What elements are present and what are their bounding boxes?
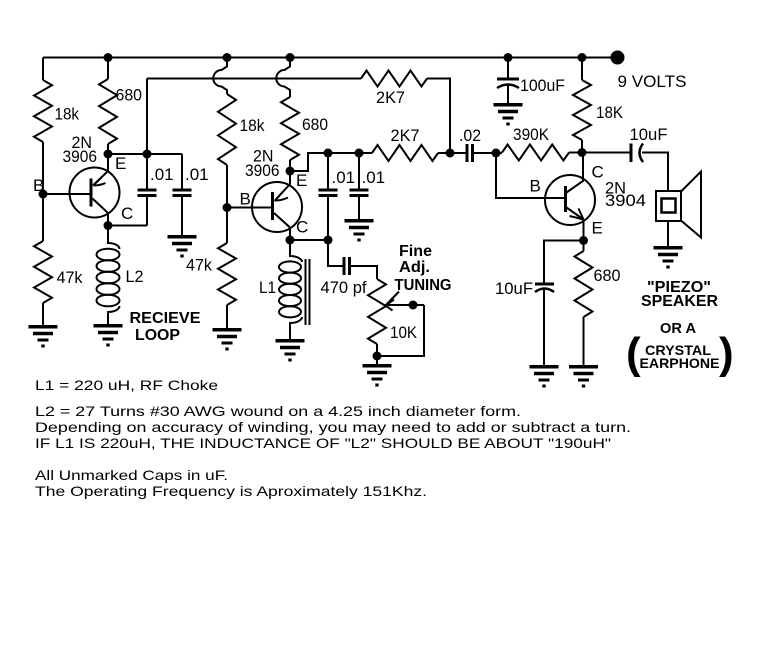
capacitor C 10uF coupling plus plate: [630, 144, 633, 163]
svg-text:E: E: [592, 219, 603, 238]
svg-text:680: 680: [116, 86, 143, 105]
svg-text:18k: 18k: [240, 116, 265, 135]
wire E3 to bypass cap: [544, 241, 584, 284]
capacitor C .01 stage2 first plates: [319, 190, 338, 196]
node E3 junction: [579, 236, 588, 245]
capacitor C .02 plates: [467, 144, 473, 162]
svg-text:Fine: Fine: [399, 243, 432, 260]
ground under L1: [276, 341, 305, 360]
speaker horn: [681, 172, 701, 238]
node cap .01 stage2 first top: [324, 149, 333, 158]
speaker piezo inner: [662, 199, 676, 213]
ground under 47k stage2: [213, 330, 242, 349]
capacitor C 10uF coupling wire left: [582, 152, 630, 154]
wire B3 path: [496, 153, 565, 198]
svg-text:9 VOLTS: 9 VOLTS: [618, 72, 687, 91]
svg-text:.01: .01: [185, 165, 209, 184]
resistor R 680 stage2: [281, 97, 299, 160]
node E1 junction: [104, 150, 113, 159]
ground under 680 stage3: [569, 367, 598, 386]
node 18k stage2 top rail dot: [223, 53, 232, 62]
inductor L1 core lines: [306, 259, 310, 325]
resistor R 18k stage2: [218, 94, 236, 165]
wire cap .01 c top lead: [327, 153, 329, 190]
svg-text:RECIEVE: RECIEVE: [130, 310, 201, 327]
wire speaker to ground: [667, 221, 669, 246]
resistor R 47k stage2 lead: [226, 208, 228, 244]
svg-text:L1: L1: [259, 278, 276, 297]
transistor Q1 emitter arrow: [94, 178, 106, 186]
wire bypass cap to ground: [543, 290, 545, 366]
node 18K stage3 top rail dot: [578, 53, 587, 62]
wire 390K left lead: [496, 152, 502, 154]
ground under pot: [363, 366, 392, 385]
wire 18k bottom to base node: [42, 142, 44, 194]
wire 100uF to ground: [507, 85, 509, 103]
svg-text:47k: 47k: [186, 256, 212, 275]
node .02/390K junction: [492, 149, 501, 158]
svg-text:680: 680: [302, 115, 328, 134]
resistor R 2K7 second: [372, 145, 438, 161]
transistor Q1 circle: [70, 168, 120, 218]
svg-text:The Operating Frequency is Apr: The Operating Frequency is Aproximately …: [35, 483, 427, 499]
transistor Q1 collector diagonal: [93, 199, 109, 226]
resistor R 47k stage2: [218, 243, 236, 305]
wire Q1 base from B1: [43, 193, 90, 195]
svg-text:.01: .01: [362, 168, 386, 187]
wire cap 470pf to pot: [350, 266, 378, 279]
wire 100uF top lead: [507, 58, 509, 80]
svg-text:L2 = 27 Turns #30 AWG wound o: L2 = 27 Turns #30 AWG wound on a 4.25 in…: [35, 403, 521, 419]
wire pot bottom to ground: [376, 344, 378, 364]
svg-text:18K: 18K: [596, 103, 624, 122]
svg-text:(: (: [626, 329, 641, 378]
node 680 stage1 top rail dot: [104, 53, 113, 62]
wire wiper down to bottom: [377, 305, 424, 356]
inductor L1: [279, 240, 302, 339]
resistor R 680 stage1: [99, 79, 117, 144]
resistor R 47k stage1 lead: [42, 194, 44, 241]
wire 18k stage2 top with hop: [213, 58, 227, 95]
potentiometer wiper arrow: [386, 292, 400, 311]
svg-text:LOOP: LOOP: [135, 327, 180, 344]
capacitor C .01 stage1 second plates: [173, 190, 192, 196]
svg-text:10K: 10K: [390, 323, 418, 342]
wire 47k stage2 to ground: [226, 305, 228, 328]
transistor Q2 circle: [252, 182, 302, 232]
transistor Q3 collector diagonal: [567, 153, 584, 193]
svg-text:3906: 3906: [245, 161, 280, 180]
resistor R 680 stage3: [575, 251, 593, 317]
svg-text:3906: 3906: [63, 147, 98, 166]
ground under L2: [94, 326, 123, 345]
svg-text:L1 = 220 uH, RF Choke: L1 = 220 uH, RF Choke: [35, 377, 218, 393]
wire cap .01 a bottom to C1 line: [146, 196, 148, 226]
wire 390K right lead: [569, 152, 582, 154]
svg-text:C: C: [121, 204, 133, 223]
node 9V terminal dot: [611, 51, 625, 65]
node C2 branch junction: [324, 236, 333, 245]
wire cap .01 b to ground: [181, 196, 183, 236]
svg-text:Depending on accuracy of windi: Depending on accuracy of winding, you ma…: [35, 419, 631, 435]
svg-text:IF L1 IS 220uH, THE INDUCTANCE: IF L1 IS 220uH, THE INDUCTANCE OF "L2" S…: [35, 435, 611, 451]
wire 47k to ground: [42, 303, 44, 325]
wire 2K7 first to drop: [427, 79, 450, 154]
wire 680 stage3 to ground: [583, 317, 585, 365]
transistor Q1 emitter diagonal: [93, 154, 108, 186]
wire 680 bottom to E1: [107, 144, 109, 154]
wire 680 stage2 bottom to E2: [289, 160, 291, 171]
ground under speaker: [654, 248, 683, 267]
resistor R 18K stage3 lead top: [581, 58, 583, 81]
svg-text:390K: 390K: [513, 125, 550, 144]
wire cap .02 right: [473, 152, 497, 154]
speaker piezo body: [656, 191, 681, 221]
resistor R 680 stage3 lead: [583, 241, 585, 252]
wire coupling cap to speaker: [642, 153, 668, 192]
wire cap .01 d top lead: [358, 153, 360, 190]
capacitor C 10uF bypass curved plate: [535, 289, 554, 293]
node 100uF top rail dot: [504, 53, 513, 62]
wire cap .01 b top lead: [181, 154, 183, 190]
wire wiper to right: [388, 304, 424, 306]
svg-text:18k: 18k: [55, 105, 80, 124]
svg-text:.01: .01: [332, 168, 356, 187]
transistor Q2 base bar: [271, 192, 274, 220]
svg-text:All Unmarked Caps in uF.: All Unmarked Caps in uF.: [35, 467, 228, 483]
node pot bottom junction: [373, 352, 382, 361]
resistor R 390K: [502, 145, 569, 161]
svg-text:47k: 47k: [57, 268, 83, 287]
transistor Q2 collector diagonal: [274, 213, 290, 240]
svg-text:470 pf: 470 pf: [321, 278, 367, 297]
wire 18K stage3 bottom: [581, 140, 583, 153]
wire to cap .02: [450, 152, 467, 154]
svg-text:C: C: [296, 218, 308, 237]
ground under .01 stage1 second: [168, 237, 197, 256]
node C2 junction: [286, 236, 295, 245]
node 680 stage2 top rail dot: [286, 53, 295, 62]
resistor R 18k stage1: [34, 80, 52, 142]
svg-text:B: B: [33, 176, 44, 195]
wire cap .01 d to ground: [358, 196, 360, 220]
svg-text:E: E: [296, 171, 307, 190]
ground under 100uF: [494, 105, 523, 124]
capacitor C .01 stage1 first plates: [138, 190, 157, 196]
capacitor C .01 stage2 second plates: [350, 190, 369, 196]
svg-text:100uF: 100uF: [520, 76, 565, 95]
svg-text:E: E: [115, 154, 126, 173]
svg-text:3904: 3904: [605, 191, 646, 210]
inductor L2: [97, 226, 120, 325]
capacitor C 100uF curved plate: [497, 85, 519, 89]
svg-text:10uF: 10uF: [630, 125, 668, 144]
svg-text:EARPHONE: EARPHONE: [640, 355, 720, 371]
svg-text:OR A: OR A: [660, 321, 697, 337]
svg-text:SPEAKER: SPEAKER: [641, 293, 718, 310]
wire E1 net horizontal: [108, 153, 182, 155]
resistor R 2K7 first: [361, 71, 427, 87]
transistor Q2 emitter diagonal: [275, 171, 291, 201]
svg-text:B: B: [240, 190, 251, 209]
transistor Q2 emitter arrow: [276, 192, 289, 201]
wire E2 up to 153 net: [290, 153, 372, 171]
node C1 junction: [104, 221, 113, 230]
svg-text:): ): [719, 329, 734, 378]
ground under 47k stage1: [29, 327, 58, 346]
potentiometer R 10K body: [368, 279, 386, 344]
node B2 junction: [223, 203, 232, 212]
resistor R 680 stage1 lead top: [107, 58, 109, 80]
node B1 junction: [39, 190, 48, 199]
capacitor C 100uF plus plate: [497, 78, 519, 81]
node 2K7 junction: [446, 149, 455, 158]
node E2 junction: [286, 167, 295, 176]
wire feedback drop x147: [146, 79, 148, 191]
node wiper dot: [409, 301, 418, 310]
resistor R 47k stage1: [34, 241, 52, 303]
node cap .01 stage2 second top: [355, 149, 364, 158]
wire cap .01 c bottom: [327, 196, 329, 241]
capacitor C 10uF bypass plus plate: [535, 283, 554, 286]
svg-text:TUNING: TUNING: [395, 277, 452, 294]
svg-text:Adj.: Adj.: [399, 259, 430, 276]
ground under 10uF bypass: [530, 367, 559, 386]
wire C2 to branch: [290, 239, 328, 241]
resistor R 18k stage1 lead top: [42, 58, 44, 81]
svg-text:C: C: [592, 163, 604, 182]
transistor Q3 base bar: [564, 186, 567, 212]
svg-text:2K7: 2K7: [376, 88, 405, 107]
transistor Q3 circle: [545, 175, 595, 225]
wire Q2 base from B2: [227, 207, 272, 209]
wire 680 stage2 top with hop: [276, 58, 290, 98]
svg-text:B: B: [530, 177, 541, 196]
wire 18k stage2 bottom to B2: [226, 165, 228, 208]
svg-text:L2: L2: [126, 267, 144, 286]
node E1-net/cap junction: [143, 150, 152, 159]
capacitor C 10uF coupling curved plate: [640, 144, 644, 163]
svg-text:.01: .01: [150, 165, 174, 184]
transistor Q1 base bar: [90, 179, 93, 207]
ground under .01 stage2 second: [345, 221, 374, 240]
wire 2K7 second right lead: [438, 152, 450, 154]
node C3 junction: [578, 148, 587, 157]
wire top supply rail: [43, 57, 617, 59]
wire Q3 emitter to E3: [583, 220, 585, 241]
resistor R 18K stage3: [573, 80, 591, 140]
wire C1 to cap: [108, 225, 147, 227]
svg-text:.02: .02: [459, 126, 481, 145]
transistor Q3 emitter diagonal: [567, 208, 584, 220]
wire second rail (E1 feedback to 2K7): [147, 78, 361, 80]
capacitor C 470pf plates: [344, 257, 350, 275]
wire C2 branch down to cap 470pf: [328, 240, 344, 266]
svg-text:680: 680: [594, 266, 621, 285]
svg-text:2K7: 2K7: [391, 126, 420, 145]
svg-text:10uF: 10uF: [495, 279, 533, 298]
transistor Q3 emitter arrow: [570, 209, 584, 220]
